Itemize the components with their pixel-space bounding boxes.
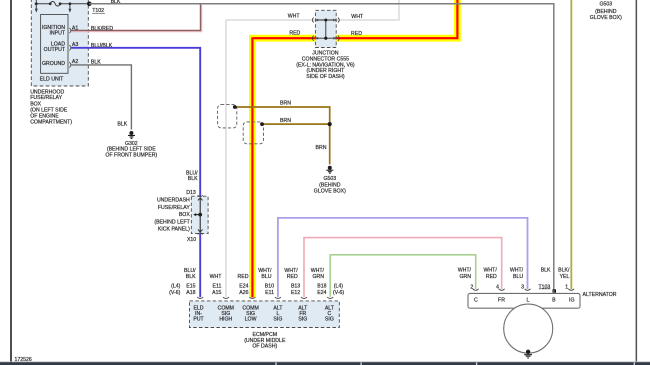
svg-text:172526: 172526 xyxy=(15,357,32,363)
svg-text:GRN: GRN xyxy=(312,274,324,280)
svg-text:GLOVE BOX): GLOVE BOX) xyxy=(590,15,622,21)
svg-text:WHT: WHT xyxy=(288,13,301,19)
svg-text:(BEHIND LEFT: (BEHIND LEFT xyxy=(154,219,190,225)
wire BLK: ELD A2 to G302 xyxy=(71,65,131,130)
svg-text:COMPARTMENT): COMPARTMENT) xyxy=(30,120,72,126)
svg-text:SIDE OF DASH): SIDE OF DASH) xyxy=(306,74,345,80)
svg-text:G503: G503 xyxy=(599,1,612,7)
svg-text:A3: A3 xyxy=(72,42,78,48)
svg-text:(L4): (L4) xyxy=(171,284,180,290)
svg-text:OF DASH): OF DASH) xyxy=(252,344,277,350)
label BLU/BLK (above underdash box) xyxy=(186,171,198,182)
svg-text:GROUND: GROUND xyxy=(42,61,65,67)
underdash fuse/relay box xyxy=(191,195,208,234)
wire WHT: C555 left to ECM E11/A15 xyxy=(226,0,399,297)
svg-text:A26: A26 xyxy=(239,290,248,296)
svg-text:LOW: LOW xyxy=(245,316,257,322)
svg-text:T103: T103 xyxy=(538,284,550,290)
svg-text:PUT: PUT xyxy=(193,316,204,322)
ELD pin names xyxy=(42,25,66,67)
svg-text:3: 3 xyxy=(521,284,524,290)
svg-text:HIGH: HIGH xyxy=(219,316,232,322)
wire WHT/RED: ECM to alternator FR xyxy=(304,238,502,298)
svg-text:E24: E24 xyxy=(317,290,326,296)
svg-text:BLK: BLK xyxy=(91,60,101,66)
ECM pin function labels xyxy=(193,305,334,322)
underdash box caption xyxy=(154,198,190,233)
alternator pin numbers xyxy=(470,284,568,290)
svg-text:BRN: BRN xyxy=(316,145,327,151)
shield box around RED wire xyxy=(243,122,263,144)
svg-text:BLU/BLK: BLU/BLK xyxy=(91,43,113,49)
svg-text:A15: A15 xyxy=(212,290,221,296)
alternator terminal letters xyxy=(474,297,575,303)
svg-text:OUTPUT: OUTPUT xyxy=(44,47,66,53)
alternator case ground xyxy=(524,350,532,358)
node G302 caption xyxy=(105,141,157,159)
svg-text:WHT: WHT xyxy=(210,274,223,280)
svg-text:(V-6): (V-6) xyxy=(169,290,181,296)
svg-text:L: L xyxy=(527,297,530,303)
svg-text:BLK: BLK xyxy=(188,176,198,182)
node G503 (top right) caption xyxy=(590,1,622,21)
svg-text:(L4): (L4) xyxy=(334,284,343,290)
svg-text:ALTERNATOR: ALTERNATOR xyxy=(583,292,617,298)
svg-text:OF ENGINE: OF ENGINE xyxy=(30,113,59,119)
svg-text:RED: RED xyxy=(486,274,497,280)
svg-text:BLU: BLU xyxy=(513,274,523,280)
alternator wire labels xyxy=(458,268,570,280)
svg-text:E11: E11 xyxy=(213,284,222,290)
wire BLK: T102 to alternator B (T103) xyxy=(89,4,554,290)
ECM wire labels xyxy=(184,268,324,280)
wire BLK/YEL: to alternator IG xyxy=(571,0,573,289)
svg-text:G503: G503 xyxy=(323,176,336,182)
svg-text:E12: E12 xyxy=(291,290,300,296)
page right border xyxy=(636,0,638,362)
svg-text:ELD UNIT: ELD UNIT xyxy=(40,76,64,82)
svg-text:BLK: BLK xyxy=(541,268,551,274)
svg-text:E15: E15 xyxy=(186,284,195,290)
wire WHT/BLU: ECM to alternator L xyxy=(278,218,528,297)
svg-text:YEL: YEL xyxy=(560,274,570,280)
svg-text:FUSE/RELAY: FUSE/RELAY xyxy=(158,205,190,211)
svg-text:BLK/RED: BLK/RED xyxy=(91,26,113,32)
svg-text:B10: B10 xyxy=(265,284,274,290)
shield box around WHT wire xyxy=(218,105,237,128)
ECM/PCM caption xyxy=(244,332,286,350)
splice T103 junction dot xyxy=(553,289,557,292)
wire RED (yellow highlighted) xyxy=(252,0,457,297)
svg-text:4: 4 xyxy=(496,284,499,290)
svg-text:A1: A1 xyxy=(72,25,78,31)
svg-text:SIG: SIG xyxy=(273,316,282,322)
splice T102 xyxy=(87,2,92,7)
svg-text:GRN: GRN xyxy=(459,274,471,280)
ECM pin ids row V6 xyxy=(169,290,326,296)
svg-text:RED: RED xyxy=(289,31,300,37)
svg-text:(V-6): (V-6) xyxy=(333,290,345,296)
ground G302 xyxy=(128,131,135,138)
svg-text:WHT: WHT xyxy=(351,14,364,20)
svg-text:B18: B18 xyxy=(317,284,326,290)
C555 caption xyxy=(296,51,355,81)
fuse end junctions xyxy=(49,2,52,5)
ECM/PCM connector box xyxy=(190,301,340,328)
svg-text:BLU: BLU xyxy=(261,274,271,280)
bottom bar xyxy=(0,361,650,365)
wire: battery feed bus xyxy=(35,3,90,5)
svg-text:D13: D13 xyxy=(186,190,196,196)
svg-text:WHT/: WHT/ xyxy=(311,268,325,274)
svg-text:RED: RED xyxy=(351,31,362,37)
svg-text:BLK: BLK xyxy=(117,121,127,127)
svg-text:RED: RED xyxy=(238,274,249,280)
alternator circle xyxy=(504,304,553,353)
alternator box xyxy=(468,293,580,308)
fuse (ELD circuit) xyxy=(50,2,60,7)
BRN junction xyxy=(328,122,332,126)
svg-text:BLK/: BLK/ xyxy=(558,268,570,274)
ELD unit box xyxy=(41,15,68,74)
svg-text:E24: E24 xyxy=(239,284,248,290)
wire BRN shield drain 2 xyxy=(262,123,330,125)
alternator pin arcs xyxy=(473,289,575,291)
svg-text:BRN: BRN xyxy=(280,118,291,124)
svg-text:SIG: SIG xyxy=(298,316,307,322)
svg-text:A2: A2 xyxy=(72,59,78,65)
svg-text:IG: IG xyxy=(569,297,574,303)
svg-text:(BEHIND: (BEHIND xyxy=(319,182,341,188)
junction connector C555 xyxy=(312,10,339,47)
svg-text:WHT/: WHT/ xyxy=(458,268,472,274)
svg-text:WHT/: WHT/ xyxy=(284,268,298,274)
branch stub up xyxy=(35,0,37,4)
svg-text:1: 1 xyxy=(565,284,568,290)
svg-text:WHT/: WHT/ xyxy=(484,268,498,274)
underhood box caption xyxy=(30,89,72,125)
svg-text:X10: X10 xyxy=(187,237,196,243)
svg-text:GLOVE BOX): GLOVE BOX) xyxy=(314,189,346,195)
page left border xyxy=(10,0,12,364)
svg-text:BLK: BLK xyxy=(186,274,196,280)
arrow to ELD unit xyxy=(68,4,71,13)
svg-text:BLU/: BLU/ xyxy=(184,268,196,274)
arrow to fuse box circuits (left) xyxy=(35,4,38,13)
svg-text:RED: RED xyxy=(287,274,298,280)
svg-text:UNDERDASH: UNDERDASH xyxy=(157,198,190,204)
underhood fuse/relay box (dashed) xyxy=(31,0,88,86)
svg-text:FUSE/RELAY: FUSE/RELAY xyxy=(30,95,62,101)
svg-text:B: B xyxy=(552,297,556,303)
svg-text:FR: FR xyxy=(498,297,505,303)
svg-text:INPUT: INPUT xyxy=(49,30,65,36)
svg-text:E11: E11 xyxy=(265,290,274,296)
svg-text:WHT/: WHT/ xyxy=(510,268,524,274)
svg-text:KICK PANEL): KICK PANEL) xyxy=(158,227,190,233)
svg-text:OF FRONT BUMPER): OF FRONT BUMPER) xyxy=(105,152,157,158)
ground G503 xyxy=(326,166,333,173)
svg-text:SIG: SIG xyxy=(325,316,334,322)
svg-text:BOX: BOX xyxy=(179,212,190,218)
svg-text:B13: B13 xyxy=(291,284,300,290)
svg-text:BRN: BRN xyxy=(280,100,291,106)
wire BRN shield drain 1 xyxy=(235,107,330,164)
wire BLK/RED: ELD A1 xyxy=(71,5,202,32)
svg-text:C: C xyxy=(474,297,478,303)
svg-text:A18: A18 xyxy=(186,290,195,296)
ECM pin ids row L4 xyxy=(171,284,326,290)
ECM pin arcs xyxy=(197,297,333,298)
ELD pin arcs xyxy=(69,28,70,33)
node G503 caption xyxy=(314,176,346,195)
wire BLU/BLK: ELD A3 to ECM xyxy=(71,48,200,297)
shield drain junction dots xyxy=(233,105,237,109)
wire WHT/GRN: ECM to alternator C xyxy=(330,255,476,297)
svg-text:WHT/: WHT/ xyxy=(258,268,272,274)
